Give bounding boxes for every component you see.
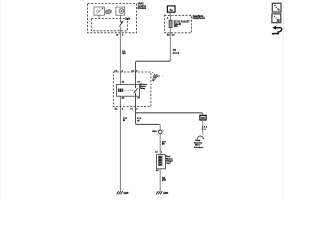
- icon zoom-in (below): [272, 14, 281, 23]
- svg-text:S103: S103: [152, 131, 157, 133]
- svg-text:1: 1: [161, 152, 163, 154]
- icon zoom-out (top right): [272, 3, 281, 12]
- svg-text:2040: 2040: [173, 52, 180, 55]
- svg-text:Module: Module: [138, 8, 147, 10]
- inner dashed box (light switch block): [91, 19, 127, 31]
- fuse block dashed box: [165, 15, 192, 33]
- indicator LED box: [94, 7, 104, 15]
- svg-text:86: 86: [122, 81, 125, 83]
- bottom pin labels: [115, 108, 139, 110]
- switch blade: [119, 23, 122, 27]
- svg-text:10: 10: [116, 35, 119, 37]
- LED symbol: [96, 8, 103, 15]
- svg-text:C1: C1: [131, 70, 135, 72]
- wire label TN 150: [122, 51, 126, 55]
- top pin labels: [114, 69, 138, 72]
- photocell: [105, 9, 112, 14]
- wire label: [173, 50, 180, 55]
- stub tag to fuse: [169, 12, 171, 20]
- svg-text:Actuators: Actuators: [194, 146, 204, 149]
- connector half circle: [197, 136, 203, 139]
- svg-text:85: 85: [122, 98, 125, 100]
- svg-text:58: 58: [202, 129, 206, 131]
- resistor component box: [157, 155, 166, 169]
- svg-text:-: -: [162, 76, 163, 78]
- svg-text:L58: L58: [202, 126, 208, 128]
- svg-text:A2: A2: [156, 169, 160, 172]
- relay pin labels: [122, 81, 141, 99]
- svg-text:5: 5: [122, 108, 124, 110]
- label HVAC Control Module: [138, 3, 147, 10]
- svg-text:Grid: Grid: [166, 163, 171, 165]
- wire label: [202, 126, 208, 131]
- svg-text:150: 150: [162, 179, 167, 182]
- svg-text:87: 87: [137, 98, 140, 100]
- icon jump arrow: [272, 26, 282, 35]
- wire label BK 150: [162, 177, 167, 182]
- svg-text:5a: 5a: [170, 8, 173, 12]
- svg-text:G304: G304: [163, 192, 169, 195]
- resistor element: [158, 156, 162, 166]
- svg-text:A: A: [167, 17, 169, 20]
- ground G305: [117, 191, 123, 194]
- relay switch: [135, 84, 137, 88]
- stub LED to dimming block: [98, 15, 100, 18]
- wire fuse to relay pin 30: [169, 28, 171, 60]
- svg-text:TN: TN: [173, 50, 176, 52]
- wire tag down to connector: [202, 120, 204, 135]
- svg-text:M5: M5: [201, 116, 205, 120]
- svg-text:A1: A1: [155, 151, 159, 154]
- wire relay 87 down: [135, 96, 137, 123]
- svg-text:10A: 10A: [174, 25, 178, 28]
- wire label BK 150: [162, 141, 167, 145]
- bulb box: [116, 7, 125, 15]
- svg-text:BK: BK: [123, 120, 126, 122]
- wire label (switch side): [137, 118, 142, 122]
- svg-text:F1: F1: [130, 108, 133, 110]
- destination label: [194, 139, 204, 149]
- svg-text:Light: Light: [125, 17, 130, 20]
- svg-text:528: 528: [122, 53, 126, 55]
- HVAC control module outer dashed box: [88, 3, 137, 32]
- module name label: [152, 73, 163, 83]
- stub bulb to switch: [120, 15, 122, 21]
- fuse tag box: [167, 6, 175, 12]
- label Fuse Block - Underhood: [193, 15, 206, 20]
- svg-text:4: 4: [122, 69, 124, 72]
- svg-text:A: A: [122, 34, 124, 37]
- tag box M5: [200, 115, 206, 120]
- svg-text:Defogger: Defogger: [166, 160, 173, 162]
- relay coil: [118, 89, 123, 92]
- relay name label: [140, 84, 147, 90]
- splice S103: [158, 130, 162, 134]
- component name label: [166, 156, 173, 165]
- wire label below relay (coil side): [123, 118, 128, 122]
- svg-text:Relay: Relay: [140, 88, 146, 90]
- svg-text:Underhood: Underhood: [193, 17, 206, 20]
- junction dot: [163, 130, 164, 131]
- svg-text:BK: BK: [162, 143, 165, 145]
- ground G304: [156, 191, 162, 194]
- svg-text:3: 3: [136, 108, 138, 110]
- svg-text:G305: G305: [124, 193, 130, 195]
- fuse F42: [169, 20, 172, 27]
- relay actuator dashed link: [124, 89, 135, 91]
- fuse value label: [174, 21, 190, 28]
- svg-text:YE: YE: [137, 121, 140, 123]
- wire from switch to ground G305: [119, 27, 121, 191]
- page right border: [283, 0, 285, 200]
- svg-text:E2: E2: [115, 108, 118, 110]
- branch wire to tag: [136, 112, 202, 114]
- page left border: [0, 0, 2, 200]
- relay K9 box: [116, 84, 139, 96]
- relay module dashed box: [113, 72, 151, 107]
- wire relay to splice: [136, 123, 137, 124]
- svg-text:C4: C4: [172, 34, 176, 37]
- bulb: [119, 9, 124, 14]
